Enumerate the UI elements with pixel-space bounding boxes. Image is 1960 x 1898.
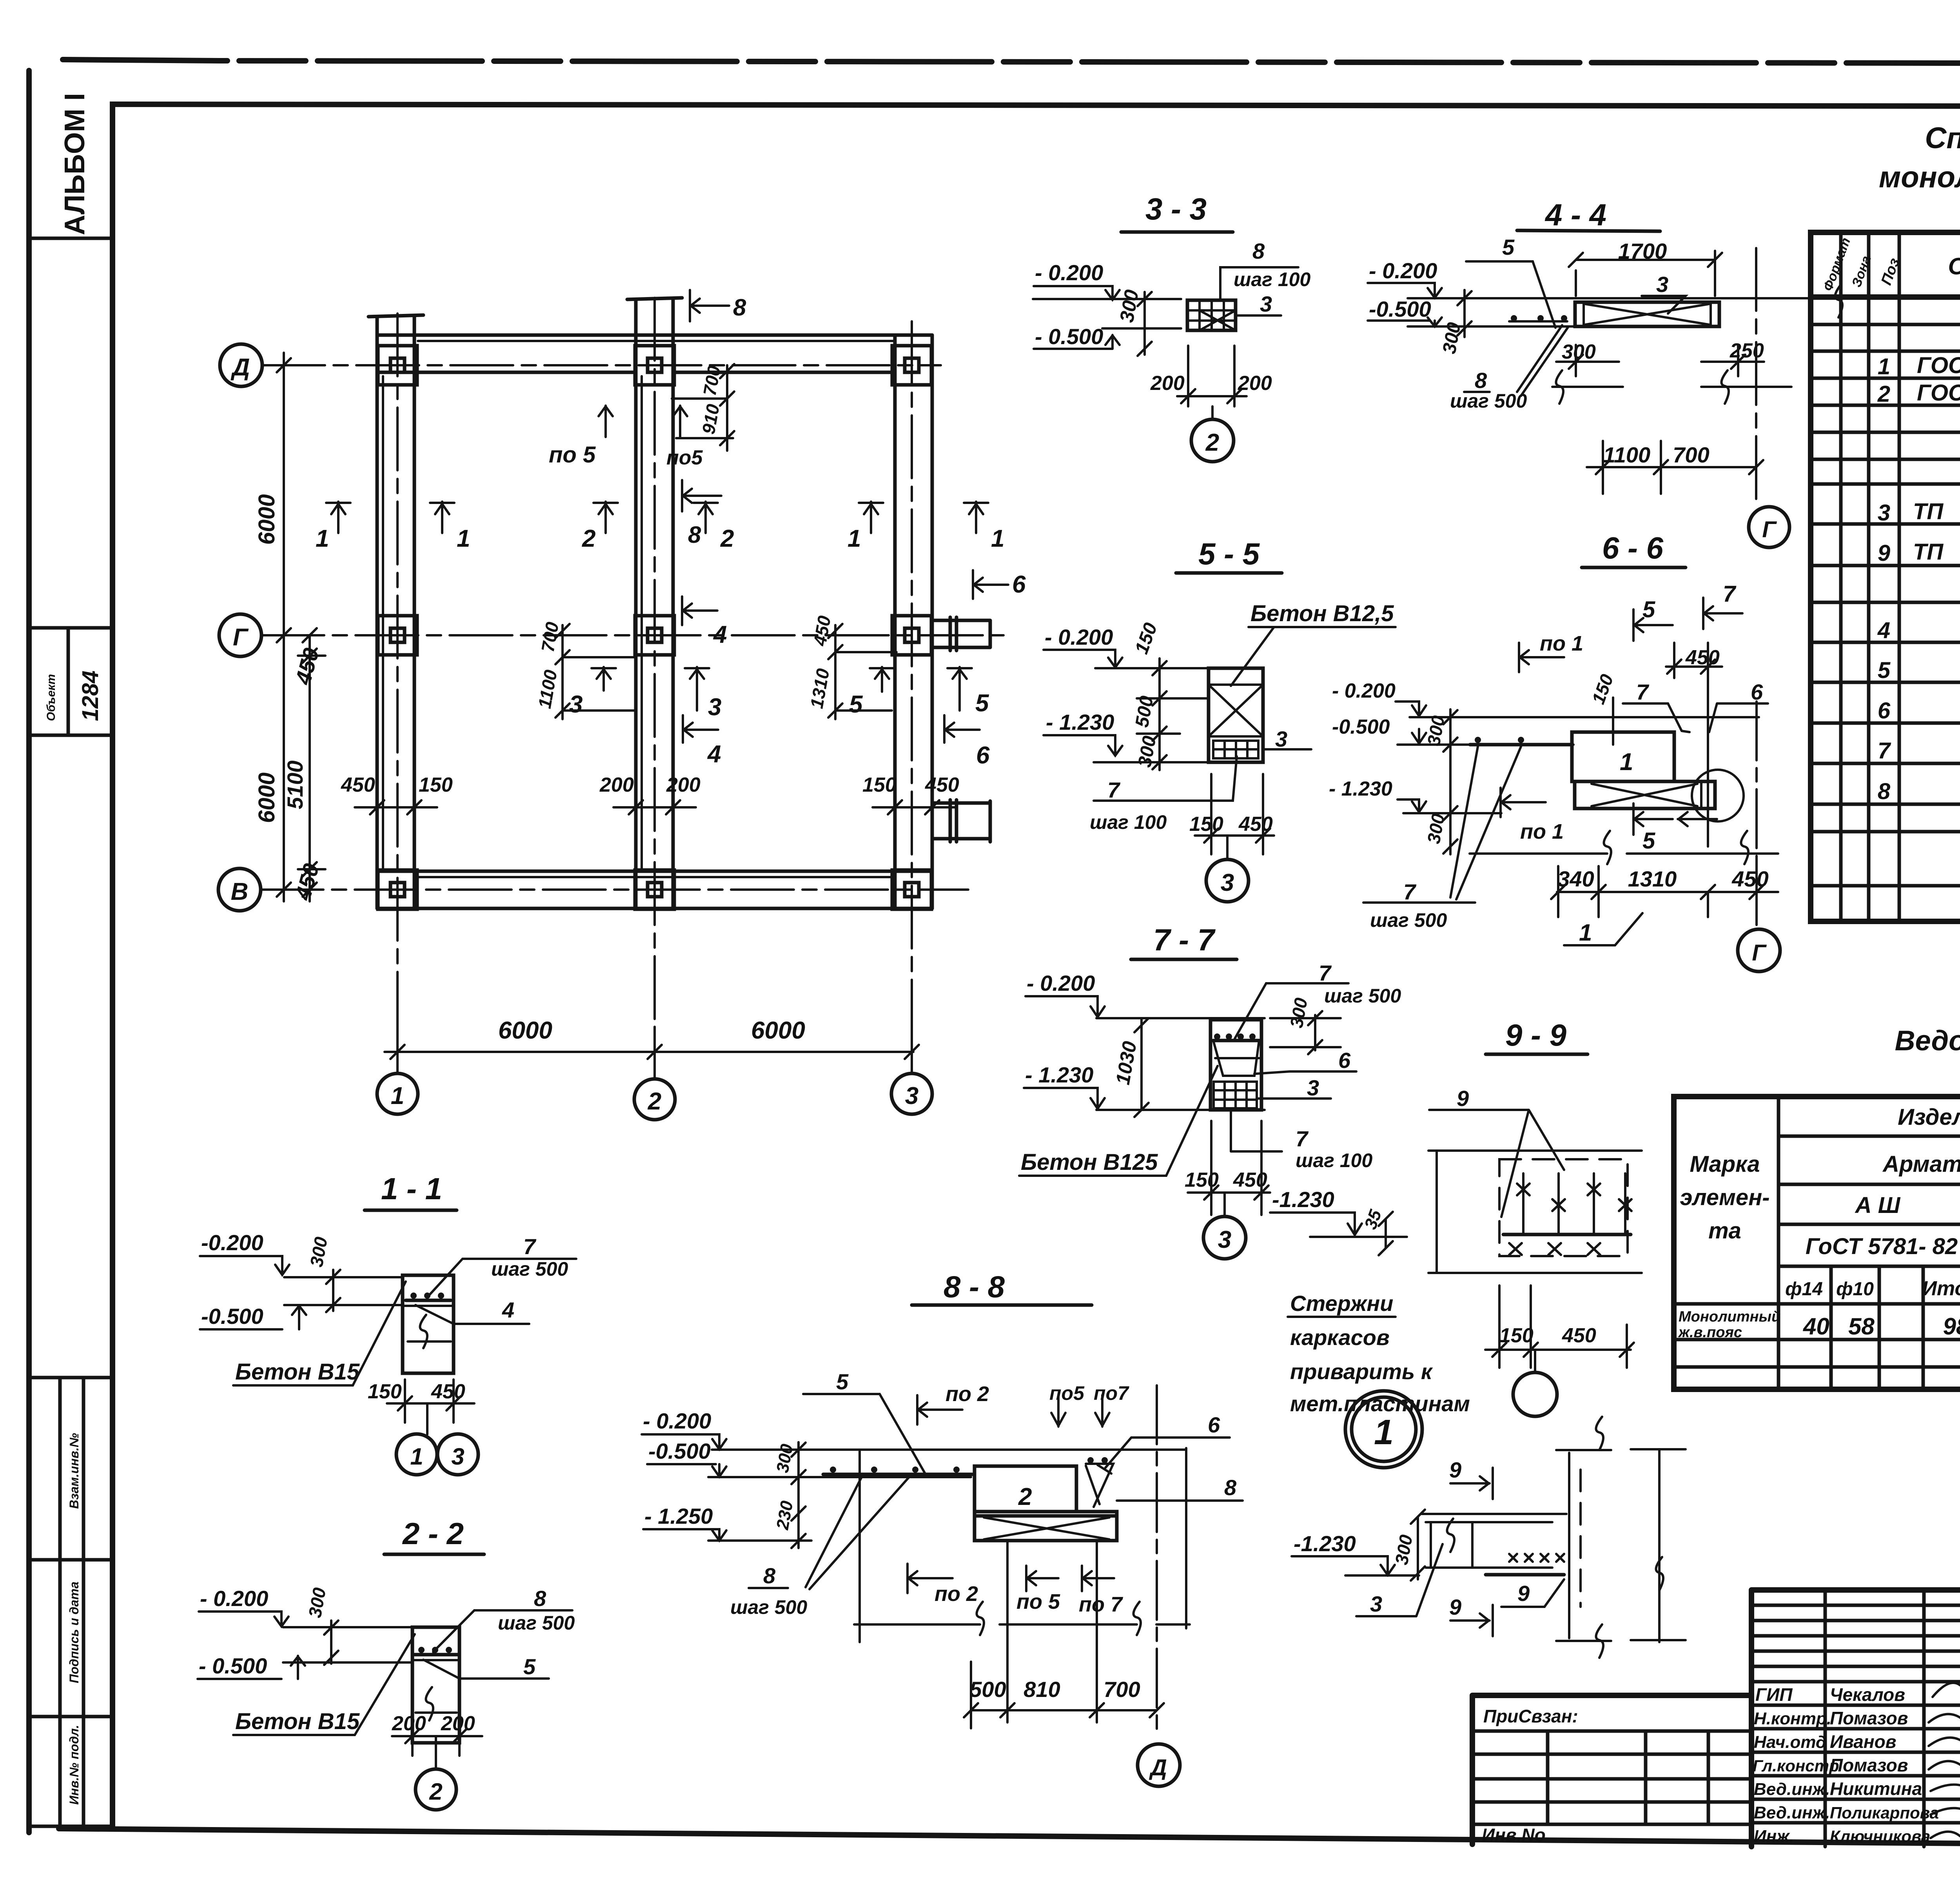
svg-text:- 0.500: - 0.500 <box>199 1653 267 1678</box>
svg-text:6000: 6000 <box>751 1017 805 1044</box>
svg-text:ГИП: ГИП <box>1755 1684 1793 1705</box>
wall row В <box>377 870 932 873</box>
svg-text:Вед.инж.: Вед.инж. <box>1754 1780 1830 1799</box>
svg-text:2: 2 <box>1205 429 1219 456</box>
svg-text:7 - 7: 7 - 7 <box>1153 923 1216 957</box>
svg-text:200: 200 <box>392 1712 426 1735</box>
top dots row (7-7) <box>1214 1033 1220 1040</box>
column section (2-2) <box>412 1627 459 1743</box>
grid axis Д <box>220 344 262 386</box>
svg-text:Чекалов: Чекалов <box>1830 1684 1905 1705</box>
column section (7-7) <box>1210 1020 1261 1110</box>
svg-text:4: 4 <box>707 741 721 768</box>
beam block with rebar (3-3) <box>1187 300 1236 330</box>
steel table frame <box>1674 1097 1960 1389</box>
svg-text:8 - 8: 8 - 8 <box>944 1269 1005 1304</box>
column Г2 <box>635 616 674 655</box>
block 1 (6-6) <box>1572 732 1674 781</box>
svg-text:8: 8 <box>1224 1475 1237 1500</box>
svg-text:9: 9 <box>1517 1581 1530 1606</box>
column section (1-1) <box>403 1275 454 1373</box>
svg-text:А Ш: А Ш <box>1855 1193 1901 1218</box>
svg-text:8: 8 <box>688 522 701 548</box>
svg-text:Г: Г <box>233 624 249 651</box>
svg-text:5: 5 <box>836 1369 849 1394</box>
svg-text:1: 1 <box>410 1443 423 1470</box>
detail 1: break mark left <box>1447 1519 1454 1552</box>
svg-text:9: 9 <box>1449 1457 1461 1482</box>
svg-text:5: 5 <box>975 690 989 717</box>
svg-text:450: 450 <box>1731 867 1768 891</box>
svg-text:3: 3 <box>1260 292 1272 316</box>
svg-text:5 - 5: 5 - 5 <box>1198 537 1260 571</box>
svg-text:500: 500 <box>969 1677 1006 1702</box>
svg-text:9: 9 <box>1449 1595 1461 1619</box>
svg-text:Инж.: Инж. <box>1754 1827 1794 1846</box>
svg-text:1: 1 <box>1374 1413 1394 1452</box>
svg-text:2: 2 <box>582 525 595 552</box>
vertical construction lines (8-8) <box>860 1448 1186 1722</box>
svg-text:6 - 6: 6 - 6 <box>1602 531 1664 565</box>
svg-text:1284: 1284 <box>78 671 103 721</box>
svg-text:40: 40 <box>1803 1313 1829 1340</box>
svg-text:1: 1 <box>1878 354 1890 379</box>
svg-text:Инв.No: Инв.No <box>1482 1825 1546 1845</box>
svg-text:5: 5 <box>523 1654 536 1679</box>
dim chain 150/500/300 (5-5) <box>1137 658 1209 770</box>
grid axis 1 <box>396 314 399 1074</box>
svg-text:- 1.230: - 1.230 <box>1025 1062 1093 1087</box>
bottom line (4-4) <box>1408 325 1719 328</box>
left dim line 6000/6000 <box>267 353 302 901</box>
svg-text:по 5: по 5 <box>549 442 596 468</box>
svg-text:-0.200: -0.200 <box>201 1230 263 1255</box>
cut mark lower right (6-6) <box>1678 812 1717 826</box>
beam with X hatch (4-4) <box>1575 302 1719 326</box>
cell Марка элемента <box>1777 1097 1780 1389</box>
svg-text:- 1.230: - 1.230 <box>1046 710 1114 734</box>
svg-text:Д: Д <box>1149 1755 1167 1780</box>
rebar cage (5-5) <box>1213 741 1258 758</box>
dim line низ (4-4) <box>1552 386 1791 388</box>
svg-text:-1.230: -1.230 <box>1294 1531 1356 1556</box>
svg-text:150: 150 <box>1185 1169 1219 1191</box>
svg-text:шаг 100: шаг 100 <box>1234 268 1310 290</box>
svg-text:6000: 6000 <box>254 494 279 545</box>
signature table columns <box>1825 1590 1960 1847</box>
svg-text:8: 8 <box>534 1586 546 1611</box>
svg-text:150: 150 <box>419 774 453 796</box>
svg-text:Никитина: Никитина <box>1830 1778 1922 1799</box>
rebar cage (7-7) <box>1214 1082 1257 1108</box>
wall row Д <box>377 334 932 337</box>
svg-text:шаг 500: шаг 500 <box>1370 909 1447 931</box>
column Г1 <box>378 616 417 655</box>
leader 8 шаг 100 (3-3) <box>1220 267 1298 300</box>
svg-text:-1.230: -1.230 <box>1272 1187 1334 1212</box>
weld dots (6-6) <box>1470 743 1572 747</box>
svg-text:200: 200 <box>441 1712 475 1735</box>
svg-text:- 0.200: - 0.200 <box>1035 260 1103 285</box>
spec table column lines <box>1841 232 1960 921</box>
svg-text:7: 7 <box>523 1234 537 1259</box>
rebar band (2-2) <box>415 1653 458 1657</box>
svg-text:по 1: по 1 <box>1520 820 1564 843</box>
svg-text:58: 58 <box>1848 1313 1875 1340</box>
svg-text:8: 8 <box>1878 779 1891 804</box>
svg-text:2: 2 <box>1877 381 1890 407</box>
cut mark 3 pair <box>592 667 616 691</box>
dim 150|450 under col3 <box>873 784 955 823</box>
svg-text:шаг 500: шаг 500 <box>498 1612 575 1634</box>
svg-text:Бетон В12,5: Бетон В12,5 <box>1250 601 1394 626</box>
grid line dashed (6-6) <box>1755 702 1758 925</box>
svg-text:Ведомость расхода стали н: Ведомость расхода стали на <box>1895 1025 1960 1057</box>
column Д3 <box>892 346 931 385</box>
svg-text:Иванов: Иванов <box>1830 1731 1896 1752</box>
horizontal bar (9-9) <box>1503 1233 1631 1236</box>
column Г3 <box>892 616 931 655</box>
svg-text:2: 2 <box>429 1778 442 1805</box>
svg-text:450: 450 <box>431 1380 465 1403</box>
svg-text:700: 700 <box>1673 442 1709 467</box>
svg-text:1100: 1100 <box>1603 442 1650 467</box>
svg-text:9 - 9: 9 - 9 <box>1505 1018 1567 1052</box>
svg-text:по5: по5 <box>1049 1382 1085 1404</box>
svg-text:5: 5 <box>849 691 863 718</box>
svg-text:3: 3 <box>1878 500 1890 526</box>
dim 300 rotated (4-4) <box>1457 290 1472 337</box>
svg-text:150: 150 <box>862 774 897 796</box>
grid axis 2 <box>653 298 656 1079</box>
metal plate anchors (8-8) <box>1086 1464 1113 1507</box>
svg-text:- 0.200: - 0.200 <box>1369 258 1437 283</box>
svg-text:98: 98 <box>1943 1313 1960 1340</box>
svg-text:5: 5 <box>1502 235 1515 259</box>
svg-text:2: 2 <box>720 525 734 552</box>
signature table narrow rows <box>1751 1605 1960 1682</box>
vertical rebars with ties (9-9) <box>1523 1173 1625 1233</box>
svg-text:2: 2 <box>1018 1483 1032 1510</box>
svg-text:7: 7 <box>1319 961 1332 985</box>
svg-text:Объект: Объект <box>45 674 58 721</box>
left dim line 450/5100/450 <box>298 635 325 901</box>
svg-text:6: 6 <box>1338 1048 1351 1073</box>
svg-text:ТП: ТП <box>1913 539 1944 565</box>
svg-text:1: 1 <box>457 525 470 552</box>
dim 450 rotated below Г col3 <box>828 624 897 719</box>
svg-text:Ключникова: Ключникова <box>1830 1827 1930 1845</box>
circle Г (4-4) <box>1749 507 1789 547</box>
spec table header row <box>1811 294 1960 300</box>
svg-text:200: 200 <box>666 774 701 796</box>
belt top/bottom lines (9-9) <box>1428 1151 1642 1273</box>
svg-text:Г: Г <box>1762 517 1777 542</box>
svg-text:3: 3 <box>1221 869 1234 896</box>
svg-text:4: 4 <box>1877 618 1890 643</box>
rebar dots row (8-8) <box>823 1473 972 1476</box>
svg-text:ГОСТ 13579 - 78: ГОСТ 13579 - 78 <box>1917 380 1960 406</box>
svg-text:3: 3 <box>1218 1226 1231 1253</box>
cut mark 4 upper <box>682 596 717 625</box>
svg-text:ГОСТ 13579 - 78: ГОСТ 13579 - 78 <box>1917 353 1960 378</box>
main level lines (8-8) <box>712 1448 1186 1451</box>
svg-text:9: 9 <box>1457 1086 1469 1111</box>
svg-text:8: 8 <box>733 294 746 321</box>
svg-text:ТП: ТП <box>1913 499 1944 524</box>
svg-text:- 0.500: - 0.500 <box>1035 324 1103 349</box>
svg-text:та: та <box>1708 1218 1741 1244</box>
cell Взам.инв.№ <box>58 1378 62 1826</box>
svg-text:1: 1 <box>991 525 1004 552</box>
svg-text:700: 700 <box>1103 1677 1140 1702</box>
svg-text:810: 810 <box>1024 1677 1060 1702</box>
svg-text:7: 7 <box>1878 738 1891 763</box>
svg-text:Бетон В15: Бетон В15 <box>235 1709 360 1734</box>
svg-text:- 1.250: - 1.250 <box>644 1504 713 1528</box>
detail bubble circle (6-6) <box>1692 770 1744 821</box>
svg-text:4: 4 <box>713 621 727 648</box>
break marks (4-4) <box>1556 370 1563 404</box>
svg-text:- 0.200: - 0.200 <box>1045 625 1113 649</box>
svg-text:- 1.230: - 1.230 <box>1329 778 1392 800</box>
svg-text:1310: 1310 <box>1628 867 1677 891</box>
svg-text:-0.500: -0.500 <box>648 1439 711 1463</box>
sheet outer left border <box>26 71 32 1833</box>
svg-text:6000: 6000 <box>498 1017 552 1044</box>
wall line 1 <box>376 317 379 908</box>
svg-text:- 0.200: - 0.200 <box>1027 971 1095 995</box>
svg-text:1 - 1: 1 - 1 <box>381 1171 442 1206</box>
dim 450|150 under col1 <box>355 784 437 823</box>
svg-text:каркасов: каркасов <box>1290 1325 1390 1350</box>
circles 1 and 3 (1-1) <box>426 1403 428 1434</box>
wall line 3 <box>893 335 897 908</box>
break mark (1-1) <box>408 1315 451 1348</box>
stub wall right of Г <box>932 620 990 647</box>
grid axis В <box>218 868 261 911</box>
svg-text:Помазов: Помазов <box>1830 1755 1908 1775</box>
cut mark 6 upper <box>973 570 1008 599</box>
svg-text:В: В <box>231 878 249 905</box>
svg-text:4 - 4: 4 - 4 <box>1544 198 1606 232</box>
svg-text:Инв.№ подл.: Инв.№ подл. <box>67 1725 81 1805</box>
column Д1 <box>378 346 417 385</box>
cut mark К7 top (6-6) <box>1703 598 1742 629</box>
svg-text:5: 5 <box>1642 828 1655 854</box>
svg-text:6: 6 <box>976 742 990 769</box>
svg-text:- 0.200: - 0.200 <box>643 1409 711 1433</box>
svg-text:8: 8 <box>1252 239 1265 263</box>
svg-text:Изделия арматурные: Изделия арматурные <box>1898 1104 1960 1130</box>
svg-text:- 0.200: - 0.200 <box>200 1586 268 1611</box>
svg-text:6: 6 <box>1208 1412 1220 1437</box>
hatched wedge (7-7) <box>1213 1041 1259 1076</box>
svg-text:9: 9 <box>1878 540 1890 566</box>
svg-text:4: 4 <box>502 1298 514 1322</box>
block 2 (8-8) <box>975 1466 1076 1512</box>
stub wall lower right <box>932 801 990 842</box>
svg-text:3: 3 <box>1370 1592 1382 1616</box>
svg-text:ГоСТ 5781- 82: ГоСТ 5781- 82 <box>1806 1234 1958 1259</box>
svg-text:1: 1 <box>316 525 329 552</box>
svg-text:Поликарпова: Поликарпова <box>1830 1804 1939 1822</box>
svg-text:7: 7 <box>1636 680 1650 704</box>
dim 200|200 under col2 <box>613 784 696 823</box>
svg-text:Г: Г <box>1752 940 1767 966</box>
svg-text:Н.контр.: Н.контр. <box>1754 1709 1831 1728</box>
empty circle (9-9) <box>1534 1350 1536 1372</box>
detail 1: right vertical with breaks <box>1631 1449 1686 1642</box>
left approval table <box>1472 1695 1751 1844</box>
svg-text:по 7: по 7 <box>1079 1593 1123 1616</box>
svg-text:200: 200 <box>599 774 634 796</box>
svg-text:3: 3 <box>905 1082 918 1109</box>
detail 1 drawing: cut 9 arrows top <box>1450 1468 1493 1499</box>
cut mark 1 left pair <box>326 502 350 533</box>
svg-text:Бетон В125: Бетон В125 <box>1021 1149 1158 1175</box>
svg-text:по7: по7 <box>1094 1382 1129 1404</box>
dim 700 rotated below Г col2 <box>555 624 635 719</box>
svg-text:шаг 500: шаг 500 <box>1450 390 1527 412</box>
svg-text:Бетон В15: Бетон В15 <box>235 1359 360 1385</box>
label по 5 left with arrow <box>599 406 613 437</box>
column section (5-5) <box>1209 668 1263 762</box>
circle 2 (2-2) <box>435 1736 437 1769</box>
spec row lines <box>1811 324 1960 886</box>
svg-text:Подпись и дата: Подпись и дата <box>67 1582 81 1683</box>
level line -0.200 long (4-4) <box>1408 297 1838 299</box>
circle 3 (7-7) <box>1223 1193 1226 1216</box>
cut mark К5 top (6-6) <box>1633 609 1673 641</box>
detail 1: column I-beam dashed <box>1568 1453 1570 1638</box>
svg-text:Монолитный: Монолитный <box>1679 1309 1780 1325</box>
detail 1: beam lines <box>1422 1514 1566 1568</box>
lower beam X (6-6) <box>1575 781 1715 809</box>
cut mark К5 lower (6-6) <box>1633 803 1673 835</box>
svg-text:1: 1 <box>1579 919 1592 946</box>
svg-text:7: 7 <box>1296 1126 1309 1151</box>
svg-text:Итого: Итого <box>1922 1277 1960 1300</box>
svg-text:монолитный железобетонный по: монолитный железобетонный пояс. <box>1879 161 1960 194</box>
svg-text:-0.500: -0.500 <box>1332 716 1390 738</box>
svg-text:200: 200 <box>1150 372 1185 395</box>
svg-text:3: 3 <box>1307 1075 1319 1100</box>
circle Д (8-8) <box>1138 1744 1180 1786</box>
level line upper (3-3) <box>1033 298 1181 300</box>
circle 2 (3-3) <box>1211 406 1214 419</box>
svg-text:Стержни: Стержни <box>1290 1291 1393 1316</box>
svg-text:мет.пластинам: мет.пластинам <box>1290 1391 1470 1416</box>
svg-text:Обозначение: Обозначение <box>1948 253 1960 279</box>
svg-text:450: 450 <box>1562 1324 1596 1347</box>
svg-text:по 2: по 2 <box>946 1382 989 1406</box>
cut mark 8 mid <box>682 480 721 511</box>
svg-text:шаг 100: шаг 100 <box>1090 811 1167 833</box>
svg-text:3: 3 <box>708 694 721 721</box>
svg-text:шаг 500: шаг 500 <box>491 1258 568 1280</box>
svg-text:7: 7 <box>1723 581 1737 607</box>
svg-text:ф10: ф10 <box>1836 1279 1874 1300</box>
svg-text:6: 6 <box>1878 698 1891 723</box>
detail 1: cut 9 arrows bottom <box>1450 1605 1493 1636</box>
cut mark 4 lower <box>683 715 718 743</box>
svg-text:ф14: ф14 <box>1785 1279 1823 1300</box>
wall line 2 <box>634 299 638 908</box>
svg-text:5: 5 <box>1642 597 1655 622</box>
detail bubble 1 <box>1345 1391 1422 1468</box>
label по 5 right with arrow <box>673 406 687 437</box>
cell Объект 1284 <box>67 628 70 735</box>
beam X lower (8-8) <box>975 1512 1117 1541</box>
empty rows lines <box>1674 1340 1960 1367</box>
svg-text:5: 5 <box>1878 658 1891 683</box>
svg-text:3: 3 <box>1656 272 1668 297</box>
svg-text:шаг 500: шаг 500 <box>1324 985 1401 1007</box>
cut mark 8 top <box>690 290 729 321</box>
svg-text:по 2: по 2 <box>935 1582 978 1606</box>
svg-text:Взам.инв.№: Взам.инв.№ <box>67 1433 81 1509</box>
svg-text:Гл.констр: Гл.констр <box>1753 1757 1839 1775</box>
leader diagonals to 7 шаг 500 (6-6) <box>1450 747 1521 899</box>
cut mark 1 right pair <box>859 502 883 533</box>
sheet outer top border <box>63 60 1960 64</box>
svg-text:Помазов: Помазов <box>1830 1708 1908 1728</box>
svg-text:Арматура класса: Арматура класса <box>1882 1151 1960 1177</box>
svg-text:-0.500: -0.500 <box>201 1304 263 1329</box>
rebar band (1-1) <box>406 1299 451 1302</box>
leader 3 (3-3) <box>1236 314 1281 317</box>
svg-text:450: 450 <box>925 774 959 796</box>
svg-text:по5: по5 <box>666 446 703 469</box>
cut mark 5 pair <box>870 667 894 692</box>
svg-text:8: 8 <box>763 1563 776 1588</box>
grid axis 3 <box>911 321 913 1074</box>
grid axis Г <box>219 614 261 656</box>
svg-text:2 - 2: 2 - 2 <box>402 1516 464 1551</box>
grid line Г dashed (4-4) <box>1755 248 1757 504</box>
svg-text:250: 250 <box>1730 339 1764 362</box>
svg-text:приварить к: приварить к <box>1290 1359 1433 1384</box>
svg-text:Спецификация элементов на: Спецификация элементов на <box>1925 121 1960 155</box>
spec table frame <box>1811 232 1960 921</box>
svg-text:3: 3 <box>569 691 583 718</box>
rebar dots (4-4) <box>1509 320 1567 323</box>
svg-text:3: 3 <box>1275 727 1287 751</box>
svg-text:по 5: по 5 <box>1016 1590 1060 1613</box>
svg-text:- 0.200: - 0.200 <box>1332 680 1396 702</box>
svg-text:шаг 500: шаг 500 <box>730 1596 807 1618</box>
detail 1: weld marks <box>1509 1554 1564 1562</box>
svg-text:8: 8 <box>1475 368 1487 393</box>
svg-text:3 - 3: 3 - 3 <box>1145 192 1207 226</box>
column В3 <box>892 870 931 909</box>
column В1 <box>378 870 417 909</box>
dim 910/700 rotated near line2 <box>672 364 734 451</box>
svg-text:7: 7 <box>1107 778 1121 802</box>
svg-text:1: 1 <box>848 525 861 552</box>
bottom dim line 6000/6000 <box>385 1027 913 1079</box>
column В2 <box>635 870 674 909</box>
svg-text:Д: Д <box>230 354 250 381</box>
svg-text:шаг 100: шаг 100 <box>1296 1149 1372 1171</box>
svg-text:5100: 5100 <box>283 760 307 809</box>
svg-text:6000: 6000 <box>254 772 279 823</box>
svg-text:Марка: Марка <box>1690 1151 1760 1177</box>
svg-text:150: 150 <box>1189 813 1223 836</box>
cut mark 2 pair <box>593 502 618 533</box>
bottom line with break (6-6) <box>1470 852 1778 855</box>
